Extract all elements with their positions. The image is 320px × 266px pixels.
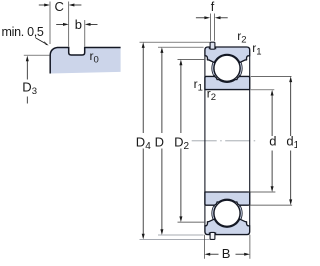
outer ring (top half) [205,47,250,63]
dimension d extension line bottom [248,191,276,193]
svg-text:min. 0,5: min. 0,5 [2,25,44,39]
ball (bottom half) [214,200,240,226]
cage right segment (top half) [239,61,243,76]
cage right segment (bottom half) [239,206,243,221]
dimension f arrow left [196,16,210,19]
dimension f arrow right [215,16,228,19]
dimension d1 extension line top [251,75,292,77]
snap ring groove edges (bottom) [208,232,210,234]
dimension D line with arrows [160,47,163,235]
snap ring section (bottom) [210,232,215,239]
dimension D extension line bottom [158,234,204,236]
dimension d line with arrows [271,90,274,192]
dimension d1 extension line bottom [248,204,292,206]
ball (top half) [214,55,240,81]
bore silhouette line right [249,56,251,226]
dimension C arrow left [39,4,50,7]
bore silhouette line left [204,56,206,226]
inner ring (bottom half) [205,192,250,205]
dimension B line with arrows [205,253,250,256]
cage left segment (top half) [212,61,216,76]
dimension D4 extension line top [140,41,210,43]
svg-text:C: C [55,0,64,14]
svg-text:B: B [222,246,231,261]
dimension D4 line with arrows [142,42,145,239]
dimension D extension line top [158,46,204,48]
groove detail outline (face, corner, top surface, groove) [50,48,120,74]
dimension B extension line left [204,235,206,259]
dimension C arrow right [69,4,82,7]
dimension D3 extension line [24,54,50,56]
dimension D2 extension line bottom [178,221,205,223]
dimension D2 extension line top [178,59,205,61]
dimension b extension line right [84,20,86,47]
cage left segment (bottom half) [212,206,216,221]
svg-text:d: d [269,134,276,149]
dimension B extension line right [249,235,251,259]
svg-text:D: D [155,134,164,149]
outer ring (bottom half) [205,219,250,235]
dimension d1 line with arrows [289,76,292,205]
dimension D2 line with arrows [179,60,182,223]
dimension D3 tail [26,97,28,104]
dimension f extension lines [210,14,212,41]
dimension D3 arrow [26,56,29,80]
dimension b arrow right [85,23,98,26]
centre line [192,140,259,142]
snap ring section (top) [210,42,215,49]
dimension d extension line top [251,89,274,91]
top half of bearing [205,42,250,89]
dimension D4 extension line bottom [140,238,210,240]
min. 0,5 leader arrow [36,38,49,45]
inner ring (top half) [205,76,250,89]
svg-text:f: f [211,0,215,14]
dimension C extension line left [49,2,51,45]
bottom half of bearing (mirror) [205,192,250,239]
dimension b arrow left [56,23,68,26]
snap ring groove edges (top) [208,47,210,49]
svg-text:b: b [75,17,82,32]
groove detail body fill [50,48,120,74]
dimension C extension line right [68,2,70,47]
